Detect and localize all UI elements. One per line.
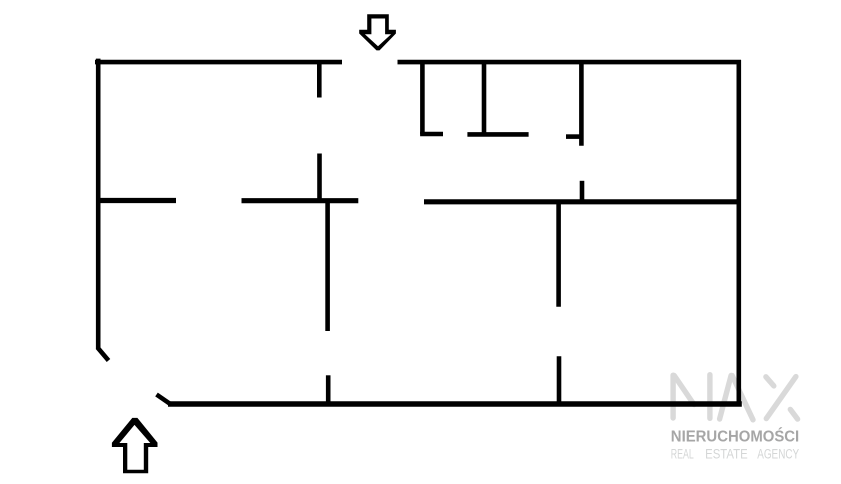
- svg-text:AGENCY: AGENCY: [757, 446, 799, 462]
- svg-text:NIERUCHOMOŚCI: NIERUCHOMOŚCI: [671, 427, 799, 446]
- svg-text:REAL: REAL: [671, 446, 694, 462]
- svg-text:ESTATE: ESTATE: [705, 446, 748, 462]
